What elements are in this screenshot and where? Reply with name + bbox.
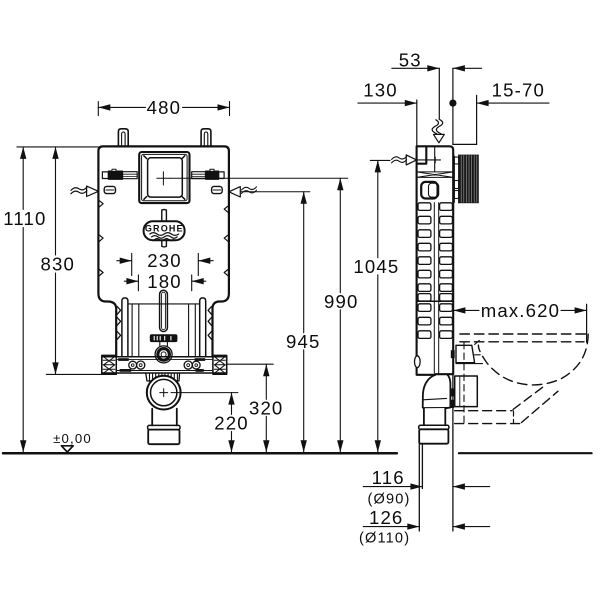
outlet socket front xyxy=(148,425,180,429)
ground line left xyxy=(3,452,397,455)
dim 1045 xyxy=(377,160,379,452)
svg-text:220: 220 xyxy=(214,413,248,434)
side: front reference line below xyxy=(452,374,454,531)
WC bowl dashed body xyxy=(478,334,588,385)
dim 230 xyxy=(132,253,199,275)
connection point dot xyxy=(449,100,456,107)
narrow section teeth right xyxy=(208,307,211,340)
side: squiggle arrow at rear xyxy=(417,157,441,163)
bracket screw circles left xyxy=(129,361,137,369)
side: finished wall line xyxy=(476,95,478,144)
dim 180 xyxy=(138,275,191,291)
dim 1110 xyxy=(17,146,98,148)
side: drain pipe below ground xyxy=(419,444,422,531)
cistern frame front outline xyxy=(98,146,229,356)
side: outlet connector box xyxy=(455,376,478,407)
flush plate outer frame xyxy=(139,152,189,203)
dim max.620 xyxy=(453,309,586,311)
reference line plate centre (990 tick) xyxy=(170,177,348,179)
bracket end block right xyxy=(213,355,227,374)
dim 126 xyxy=(363,526,419,528)
narrow section teeth left xyxy=(117,307,120,340)
mounting tab left xyxy=(118,129,128,147)
side: flush bend protection block (hatched) xyxy=(454,155,458,203)
side: inlet connector box xyxy=(456,345,475,362)
side: service window xyxy=(421,182,437,199)
svg-text:1110: 1110 xyxy=(3,208,46,229)
svg-text:GROHE: GROHE xyxy=(145,224,184,234)
svg-text:830: 830 xyxy=(41,254,75,275)
dim 130 xyxy=(358,102,417,104)
svg-text:15-70: 15-70 xyxy=(492,80,545,101)
svg-text:max.620: max.620 xyxy=(481,300,560,321)
bracket black marks xyxy=(118,358,129,361)
actuator rod right xyxy=(192,172,206,179)
mounting bracket bar xyxy=(102,357,227,373)
side: rear wall line xyxy=(416,100,418,146)
bowl mounting rod right xyxy=(200,298,206,357)
side: connection line with dot xyxy=(452,68,454,144)
wall-break squiggle arrow left xyxy=(87,186,99,196)
side: water supply line xyxy=(438,68,440,119)
dim 480 xyxy=(98,102,229,116)
svg-text:480: 480 xyxy=(147,97,181,118)
WC bowl dashed rim xyxy=(460,333,588,335)
bowl mounting rod left xyxy=(122,298,128,357)
side: gasket marks xyxy=(451,350,455,358)
connector slot left xyxy=(104,186,115,193)
side tank outline xyxy=(417,146,454,374)
svg-text:230: 230 xyxy=(147,250,181,271)
WC bowl dashed outlet pipe xyxy=(455,410,512,412)
side: frame joint line xyxy=(417,300,454,302)
svg-text:1045: 1045 xyxy=(353,256,399,277)
connector slot right xyxy=(212,186,223,193)
dim 15-70 xyxy=(477,102,549,104)
right edge notches xyxy=(224,206,228,275)
side: top cover line xyxy=(453,143,477,145)
outlet pipe front xyxy=(152,409,177,426)
dim 1045 tick with squiggle xyxy=(370,159,390,161)
mounting tab right xyxy=(201,129,211,147)
left edge notches xyxy=(100,201,104,276)
dim 945 xyxy=(303,192,305,452)
dashed flush axis xyxy=(463,343,465,425)
fill valve circle xyxy=(155,346,172,363)
svg-text:130: 130 xyxy=(363,80,397,101)
outlet flange comb xyxy=(146,373,180,381)
central flush pipe slot xyxy=(160,290,168,331)
actuator rod left xyxy=(102,172,108,179)
svg-text:990: 990 xyxy=(324,291,358,312)
svg-text:(Ø110): (Ø110) xyxy=(359,531,410,547)
side: cross band xyxy=(417,172,454,178)
svg-text:126: 126 xyxy=(369,507,403,528)
GROHE logo stem above xyxy=(162,210,167,222)
side: centre channel xyxy=(434,203,438,373)
svg-text:53: 53 xyxy=(399,50,422,71)
side: supply down arrow xyxy=(434,134,445,142)
bracket screw circles right xyxy=(184,361,192,369)
ground line right xyxy=(459,452,592,454)
dim 320 xyxy=(227,363,273,365)
dim 830 xyxy=(55,147,57,375)
flush plate corner marks xyxy=(144,156,185,200)
svg-text:±0,00: ±0,00 xyxy=(53,431,92,446)
svg-text:945: 945 xyxy=(286,331,320,352)
inner panel lines xyxy=(128,303,200,305)
reference line tank side (945 tick) with squiggle arrow xyxy=(239,191,310,193)
type label black xyxy=(150,335,177,342)
GROHE logo stem below xyxy=(162,240,167,247)
side: supply squiggle break xyxy=(432,120,438,134)
dim 220 xyxy=(171,392,238,394)
outlet bend circle xyxy=(147,376,181,410)
dim 53 xyxy=(392,67,482,69)
WC bowl dashed outlet diagonals xyxy=(513,385,546,410)
svg-text:180: 180 xyxy=(147,271,181,292)
svg-text:320: 320 xyxy=(249,398,283,419)
side: foot adjuster xyxy=(415,356,421,368)
dim 990 xyxy=(339,178,341,452)
side: frame slats left xyxy=(418,203,431,339)
svg-text:(Ø90): (Ø90) xyxy=(367,492,410,508)
flush plate crosshair xyxy=(157,172,170,185)
svg-text:116: 116 xyxy=(372,467,405,488)
side: lid parting line xyxy=(434,146,436,172)
side: outlet socket xyxy=(419,425,449,429)
dim 116 xyxy=(363,486,422,488)
bracket end block left xyxy=(102,355,117,374)
side: outlet elbow xyxy=(423,375,436,426)
side: frame slats right xyxy=(440,203,453,339)
GROHE logo badge xyxy=(144,221,185,240)
flush plate window xyxy=(148,158,183,197)
